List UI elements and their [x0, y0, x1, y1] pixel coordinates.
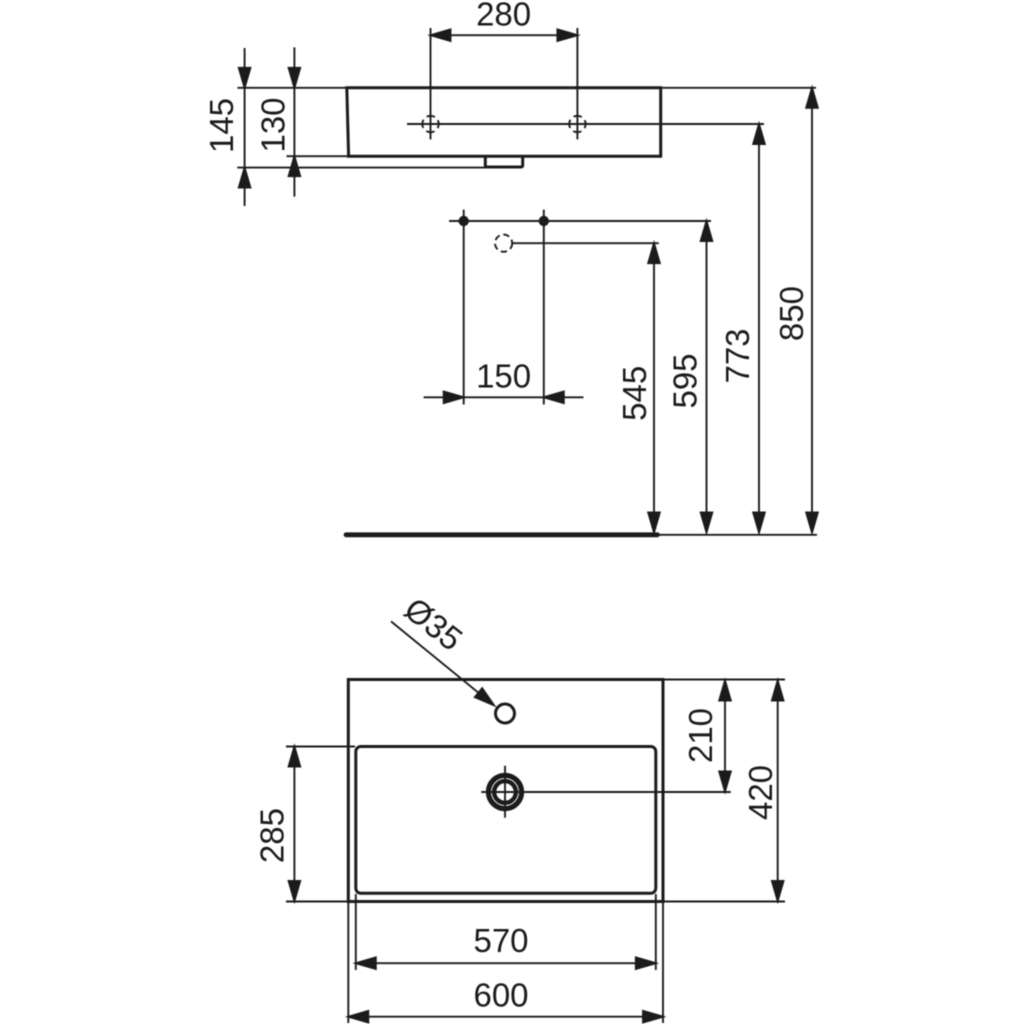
svg-text:570: 570 — [473, 922, 528, 959]
svg-text:595: 595 — [666, 353, 703, 408]
svg-text:Ø35: Ø35 — [398, 590, 470, 658]
svg-text:545: 545 — [616, 366, 653, 421]
svg-text:280: 280 — [476, 0, 531, 32]
svg-text:130: 130 — [254, 97, 291, 152]
svg-text:285: 285 — [253, 808, 290, 863]
svg-text:210: 210 — [682, 708, 719, 763]
svg-text:150: 150 — [476, 358, 531, 395]
svg-text:773: 773 — [719, 328, 756, 383]
svg-text:145: 145 — [203, 98, 240, 153]
svg-text:600: 600 — [473, 977, 528, 1014]
svg-text:850: 850 — [773, 286, 810, 341]
svg-text:420: 420 — [742, 765, 779, 820]
